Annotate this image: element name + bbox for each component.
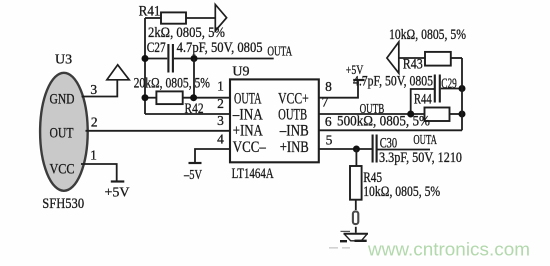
C30 reference label <box>380 135 397 151</box>
pin number 3 (U3) <box>90 82 97 97</box>
R42 value label 20k ohm <box>134 76 210 92</box>
svg-text:OUT: OUT <box>50 125 74 141</box>
svg-text:1: 1 <box>90 147 97 162</box>
U3 pin name VCC <box>50 161 75 177</box>
optocoupler U3 body <box>40 73 88 191</box>
svg-text:4: 4 <box>217 131 224 146</box>
svg-text:+INB: +INB <box>280 139 309 156</box>
wire U9 pin5 +INB to C30 <box>319 148 372 150</box>
svg-text:GND: GND <box>50 92 75 108</box>
svg-text:–5V: –5V <box>183 168 202 183</box>
+5V power bar (right) <box>353 79 364 81</box>
U9 pin label +INA <box>233 123 263 140</box>
svg-text:VCC: VCC <box>50 161 75 177</box>
OUTA off-page flag (right-pointing) <box>215 5 226 31</box>
+5V power bar (left) <box>111 180 125 182</box>
capacitor C29 plates <box>435 75 440 103</box>
wire C29 left branch <box>411 89 434 114</box>
R45 reference label <box>363 170 382 186</box>
svg-text:500kΩ, 0805, 5%: 500kΩ, 0805, 5% <box>337 113 430 129</box>
svg-text:4.7pF, 50V, 0805: 4.7pF, 50V, 0805 <box>353 74 433 90</box>
wire pin5 node down to R45 <box>355 149 357 166</box>
junction node R / C27 <box>191 55 198 62</box>
junction C29 / right vertical <box>459 85 466 92</box>
-5V label <box>183 168 202 183</box>
junction R44 / right vertical <box>459 111 466 118</box>
ground symbol <box>340 231 368 241</box>
U9 pin label OUTA <box>234 90 262 107</box>
GND flag triangle <box>107 65 129 80</box>
pin number 5 (U9) <box>326 132 333 147</box>
svg-text:10kΩ, 0805, 5%: 10kΩ, 0805, 5% <box>363 184 440 200</box>
right vertical wire (R43/C29/R44 to -INB) <box>461 58 463 130</box>
U9 part label LT1464A <box>232 166 274 182</box>
wire U9 pin4 to -5V <box>195 149 230 163</box>
wire flag to R43 <box>399 57 425 59</box>
svg-text:2kΩ, 0805, 5%: 2kΩ, 0805, 5% <box>148 25 225 41</box>
svg-text:VCC+: VCC+ <box>278 90 309 107</box>
C29 value label 4.7pF <box>353 74 433 90</box>
svg-text:10kΩ, 0805, 5%: 10kΩ, 0805, 5% <box>389 27 466 43</box>
C27 value label 4.7pF <box>177 40 263 56</box>
wire to ground symbol <box>355 227 357 233</box>
svg-text:4.7pF, 50V, 0805: 4.7pF, 50V, 0805 <box>177 40 263 56</box>
wire node L to C27 left plate <box>145 58 167 60</box>
node R vertical wire (OUTA net) <box>193 59 195 98</box>
svg-text:VCC–: VCC– <box>233 139 267 156</box>
svg-text:SFH530: SFH530 <box>42 196 84 212</box>
svg-text:LT1464A: LT1464A <box>232 166 274 182</box>
svg-text:OUTA: OUTA <box>413 133 437 148</box>
svg-text:OUTA: OUTA <box>267 44 292 59</box>
U3 part label SFH530 <box>42 196 84 212</box>
R43 value label 10k ohm <box>389 27 466 43</box>
resistor R45 (vertical) <box>350 166 362 200</box>
watermark www.cntronics.com <box>367 239 530 260</box>
U9 pin label -INB <box>279 123 309 140</box>
resistor R44 <box>425 108 450 122</box>
capacitor C30 plates <box>373 135 377 163</box>
net label OUTB <box>360 102 385 117</box>
svg-text:3.3pF, 50V, 1210: 3.3pF, 50V, 1210 <box>379 150 462 166</box>
resistor R41 <box>161 12 186 23</box>
-5V power bar <box>189 162 202 164</box>
resistor R42 <box>156 91 182 104</box>
svg-text:–INA: –INA <box>232 107 263 124</box>
svg-text:R43: R43 <box>403 57 423 73</box>
U9 pin label OUTB <box>278 107 307 124</box>
U9 pin label -INA <box>232 107 263 124</box>
svg-text:3: 3 <box>217 113 224 128</box>
wire C30 right plate OUTA stub <box>378 149 431 151</box>
resistor R43 <box>425 52 451 66</box>
U9 reference label <box>232 65 249 80</box>
junction node L / C27 <box>142 55 149 62</box>
U9 pin label +INB <box>280 139 309 156</box>
net label OUTA (top) <box>267 44 292 59</box>
pin number 1 (U9) <box>217 79 224 94</box>
svg-text:www.cntronics.com: www.cntronics.com <box>367 239 530 260</box>
pin number 2 (U9) <box>217 96 224 111</box>
C27 reference label <box>147 40 166 56</box>
svg-text:2: 2 <box>91 115 98 130</box>
R44 reference label <box>414 92 432 108</box>
svg-text:U3: U3 <box>55 52 72 67</box>
R45 value label 10k ohm <box>363 184 440 200</box>
svg-text:20kΩ, 0805, 5%: 20kΩ, 0805, 5% <box>134 76 210 92</box>
wire C29 right plate to right vertical <box>441 88 462 90</box>
U9 pin label VCC- <box>233 139 267 156</box>
svg-text:7: 7 <box>322 94 329 109</box>
wire U3 pin3 to GND flag <box>82 80 118 97</box>
pin number 1 (U3) <box>90 147 97 162</box>
svg-text:2: 2 <box>217 96 224 111</box>
U3 pin name GND <box>50 92 75 108</box>
pin number 7 (U9) <box>322 94 329 109</box>
wire R44 right lead <box>450 113 463 115</box>
wire U3 pin1 to +5V <box>81 164 117 181</box>
wire U3 pin2 to U9 +INA <box>86 130 231 132</box>
wire node L to U9 pin2 <box>145 113 230 115</box>
pin number 2 (U3) <box>91 115 98 130</box>
junction C29 branch / pin7 wire <box>407 111 414 118</box>
junction node L / R42 <box>142 94 149 101</box>
U9 pin label VCC+ <box>278 90 309 107</box>
svg-text:1: 1 <box>217 79 224 94</box>
node L vertical wire (-INA feedback net) <box>144 18 146 114</box>
wire C27 right plate to OUTA stub <box>174 58 274 60</box>
svg-text:OUTB: OUTB <box>278 107 307 124</box>
pin number 3 (U9) <box>217 113 224 128</box>
pin number 4 (U9) <box>217 131 224 146</box>
R41 value label 2k ohm <box>148 25 225 41</box>
svg-text:C29: C29 <box>441 76 457 92</box>
pin number 6 (U9) <box>325 114 332 129</box>
R43 reference label <box>403 57 423 73</box>
svg-text:U9: U9 <box>232 65 249 80</box>
svg-text:C27: C27 <box>147 40 166 56</box>
wire U9 pin8 to +5V <box>319 81 358 98</box>
wire R41 right lead to OUTA flag <box>186 17 215 19</box>
U3 pin name OUT <box>50 125 74 141</box>
wire R45 bottom lead <box>355 200 357 210</box>
junction R45 / pin5 wire <box>353 146 360 153</box>
wire R42 right lead to U9 pin1 <box>183 97 230 99</box>
R41 reference label <box>139 4 161 20</box>
capacitor C27 plates <box>168 44 173 73</box>
wire U9 pin6 -INB <box>319 129 462 131</box>
svg-text:OUTA: OUTA <box>234 90 262 107</box>
svg-text:8: 8 <box>325 79 332 94</box>
wire R41 left lead <box>145 17 161 19</box>
svg-text:+5V: +5V <box>105 185 130 200</box>
svg-text:R41: R41 <box>139 4 161 20</box>
R44 value label 500k ohm <box>337 113 430 129</box>
svg-text:+INA: +INA <box>233 123 263 140</box>
svg-text:5: 5 <box>326 132 333 147</box>
+5V label (left) <box>105 185 130 200</box>
wire U9 pin7 OUTB to R44 <box>319 113 425 115</box>
svg-text:–INB: –INB <box>279 123 309 140</box>
net label OUTA (right) <box>413 133 437 148</box>
C29 reference label <box>441 76 457 92</box>
wire node L to R42 left lead <box>145 97 156 99</box>
svg-text:3: 3 <box>90 82 97 97</box>
svg-text:R44: R44 <box>414 92 432 108</box>
C30 value label 3.3pF <box>379 150 462 166</box>
ground net name 0 <box>353 211 358 224</box>
pin number 8 (U9) <box>325 79 332 94</box>
input off-page flag (left-pointing) <box>387 42 399 73</box>
R42 reference label <box>185 101 204 117</box>
wire R43 right lead <box>451 57 462 59</box>
U3 reference label <box>55 52 72 67</box>
junction node R / R42 <box>190 94 197 101</box>
+5V label (right) <box>346 62 364 77</box>
faint dashes artifact <box>329 247 350 249</box>
svg-text:6: 6 <box>325 114 332 129</box>
op-amp U9 body <box>230 79 319 162</box>
